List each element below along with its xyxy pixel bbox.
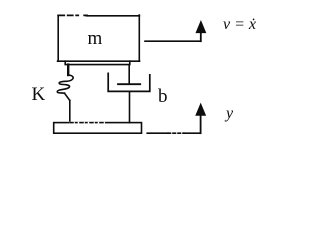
velocity reference line <box>145 40 201 42</box>
spring K top rod <box>67 65 69 75</box>
displacement y arrow shaft <box>200 114 202 133</box>
base plate rectangle <box>54 123 142 134</box>
connecting bar under mass <box>65 61 130 64</box>
displacement y reference line <box>147 132 168 134</box>
damper b piston rod <box>128 65 130 85</box>
damper b bottom stem <box>129 91 131 122</box>
mass m rectangle left edge <box>57 16 59 62</box>
mass m rectangle top edge solid part <box>87 15 140 17</box>
label K (spring constant) <box>32 84 46 106</box>
base plate top edge scan gap <box>70 122 104 124</box>
spring K bottom rod <box>69 101 71 123</box>
label m (mass) <box>88 28 103 50</box>
mass m rectangle bottom edge <box>58 60 140 62</box>
displacement y reference line dashed middle <box>168 132 184 134</box>
displacement y reference line right part <box>184 132 201 134</box>
displacement y arrow head <box>196 104 205 115</box>
label b (damping) <box>158 86 168 108</box>
spring K coil <box>57 75 73 93</box>
damper b piston plate <box>118 83 140 85</box>
spring K lower diagonal <box>65 93 70 100</box>
damper b cylinder cup <box>108 73 150 91</box>
label y <box>226 105 233 123</box>
velocity arrow shaft <box>200 32 202 42</box>
label v = x-dot <box>223 16 256 34</box>
base plate top edge dashes <box>70 122 104 124</box>
mass m rectangle top edge dashed part <box>58 14 87 16</box>
velocity arrow head <box>196 21 205 32</box>
mass m rectangle right edge <box>138 15 140 61</box>
